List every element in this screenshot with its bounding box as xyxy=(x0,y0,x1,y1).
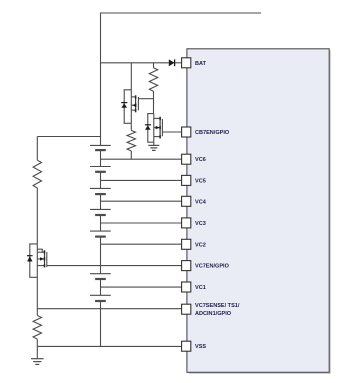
svg-text:VC1: VC1 xyxy=(195,285,206,291)
svg-text:VC7SENSE/ TS1/: VC7SENSE/ TS1/ xyxy=(195,303,240,309)
svg-text:VC4: VC4 xyxy=(195,199,207,205)
svg-text:BAT: BAT xyxy=(195,61,207,67)
svg-text:VSS: VSS xyxy=(195,344,206,350)
svg-text:VC7EN/GPIO: VC7EN/GPIO xyxy=(195,264,230,270)
svg-text:VC3: VC3 xyxy=(195,221,206,227)
svg-text:VC6: VC6 xyxy=(195,157,206,163)
svg-text:VC2: VC2 xyxy=(195,242,206,248)
svg-text:CB7EN/GPIO: CB7EN/GPIO xyxy=(195,130,230,136)
svg-text:VC5: VC5 xyxy=(195,178,206,184)
svg-text:ADCIN1/GPIO: ADCIN1/GPIO xyxy=(195,311,232,317)
